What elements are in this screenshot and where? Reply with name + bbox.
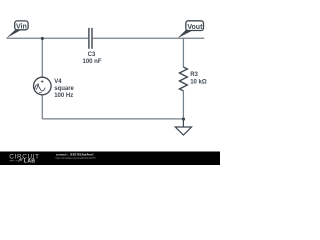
svg-text:10 kΩ: 10 kΩ	[190, 80, 207, 86]
ground stub	[182, 119, 184, 127]
resistor R3 zigzag	[179, 67, 187, 91]
node flag Vout tail	[178, 30, 193, 38]
footer bar	[0, 152, 220, 166]
wire: R3 bottom to bottom rail	[182, 91, 184, 119]
voltage source V4 circle	[34, 77, 52, 95]
wire: right vertical Vout junction to R3 top	[182, 38, 184, 67]
node flag Vout box	[186, 21, 204, 31]
voltage source V4 plus sign	[41, 80, 44, 83]
svg-text:Vout: Vout	[187, 24, 203, 31]
voltage source V4 minus sign	[39, 92, 42, 94]
CircuitLab logo bolt glyph	[19, 158, 23, 162]
wire: top horizontal left of C3	[7, 37, 89, 39]
node flag Vin tail	[6, 30, 20, 38]
svg-text:100 nF: 100 nF	[82, 59, 101, 65]
svg-text:100 Hz: 100 Hz	[54, 93, 73, 99]
svg-text:square: square	[54, 86, 74, 92]
svg-text:C3: C3	[88, 52, 96, 58]
node junction dot bottom right (ground)	[182, 118, 185, 121]
svg-text:R3: R3	[190, 72, 198, 78]
voltage source V4 sine wave glyph	[35, 85, 45, 91]
svg-text:V4: V4	[54, 79, 62, 85]
wire: V4 bottom to bottom rail	[41, 95, 43, 119]
wire: left vertical junction to V4 top	[41, 38, 43, 77]
node flag Vin box	[15, 21, 28, 30]
node junction dot left (Vin/V4)	[41, 37, 44, 40]
wire: bottom horizontal rail	[42, 118, 183, 120]
svg-text:created i : IEEE783JlabPart2: created i : IEEE783JlabPart2	[56, 153, 94, 156]
wire: top horizontal right of C3	[93, 37, 205, 39]
ground symbol triangle	[175, 127, 191, 135]
svg-text:Vin: Vin	[16, 23, 27, 30]
CircuitLab logo underline dashes	[10, 160, 18, 162]
svg-text:LAB: LAB	[24, 159, 36, 165]
voltage source V4 arrow	[36, 85, 38, 90]
capacitor C3 plates	[89, 28, 92, 49]
svg-text:http://circuitlab.com/c/e8h3c2: http://circuitlab.com/c/e8h3c2rv8z7b	[56, 157, 96, 160]
